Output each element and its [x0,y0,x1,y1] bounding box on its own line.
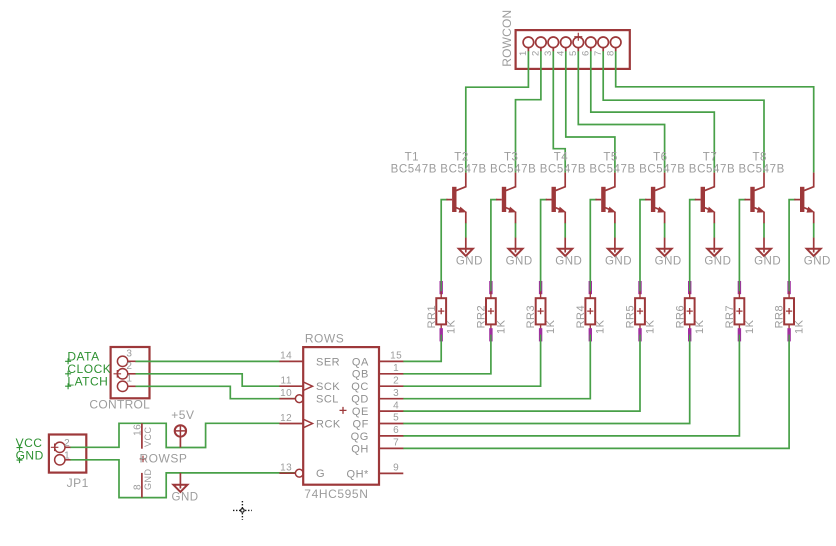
svg-text:LATCH: LATCH [67,374,108,388]
label VCC origin cross [17,445,23,451]
wire RR6 top to T6 base [690,200,696,288]
svg-text:3: 3 [126,349,132,360]
svg-text:QF: QF [353,418,369,430]
svg-text:13: 13 [280,463,292,474]
ROWCON pin 7 circle [598,37,609,48]
svg-text:BC547B: BC547B [589,163,635,175]
ROWCON pin 3 circle [548,37,559,48]
svg-text:GND: GND [804,256,831,268]
IC pin QE stub [379,410,403,412]
svg-text:G: G [316,468,325,480]
IC pin QA stub [379,360,403,362]
wire net QE: IC pin to RR5 bottom [403,334,640,411]
IC pin 14 SER stub [279,360,303,362]
svg-text:ROWCON: ROWCON [500,10,514,67]
wire RR5 top to T5 base [640,200,646,288]
svg-text:QG: QG [351,431,369,443]
CONTROL pin stub [128,360,136,362]
svg-text:QH*: QH* [347,468,370,480]
wire net VCC: JP1 pin 2 via +5V to IC RCK [70,423,280,447]
svg-text:T3: T3 [504,151,518,163]
svg-text:RR1: RR1 [426,305,438,329]
svg-text:1: 1 [393,363,399,374]
svg-text:3: 3 [543,50,554,56]
transistor T8 BC547B [800,187,804,212]
+5V supply symbol [175,425,186,436]
svg-text:RR5: RR5 [625,305,637,329]
ROWCON pin 3 stub [552,48,554,52]
ROWCON origin cross [574,33,582,41]
svg-text:6: 6 [393,425,399,436]
ROWCON pin 5 circle [573,37,584,48]
svg-text:T6: T6 [653,151,667,163]
JP1 pin 2 circle [55,442,65,452]
svg-text:T2: T2 [454,151,468,163]
wire net DATA: CONTROL pin 3 to IC SER [135,360,279,362]
svg-text:BC547B: BC547B [739,163,785,175]
ROWCON pin 4 circle [561,37,572,48]
svg-text:GND: GND [605,256,632,268]
wire ROW3 net: ROWCON pin 3 to T3 collector [553,51,565,173]
svg-text:2: 2 [126,361,132,372]
svg-text:GND: GND [555,256,582,268]
svg-text:QH: QH [351,443,369,455]
ground symbol below T8 [813,238,815,253]
wire ROW8 net: ROWCON pin 8 to T8 collector [616,51,814,173]
svg-text:QA: QA [352,356,369,368]
sheet origin crosshair [233,509,252,511]
svg-text:1K: 1K [644,319,656,334]
svg-text:BC547B: BC547B [689,163,735,175]
svg-text:T7: T7 [703,151,717,163]
svg-text:GND: GND [143,469,153,491]
wire ROW2 net: ROWCON pin 2 to T2 collector [516,51,541,173]
CONTROL origin cross [114,370,122,378]
svg-text:6: 6 [580,50,591,56]
CONTROL pin stub [128,373,136,375]
svg-text:7: 7 [593,50,604,56]
svg-text:2: 2 [393,375,399,386]
CONTROL pin stub [128,385,136,387]
IC pin QF stub [379,423,403,425]
resistor RR6 1K [688,281,691,294]
svg-text:QE: QE [352,406,369,418]
svg-text:8: 8 [605,50,616,56]
ROWSP origin cross [140,456,147,463]
ROWCON pin 1 stub [527,48,529,52]
resistor RR7 1K [738,281,741,294]
IC pin 10 SCL stub [279,398,295,400]
wire net QF: IC pin to RR6 bottom [403,334,690,424]
wire net QA: IC pin to RR1 bottom [403,334,441,361]
svg-text:9: 9 [393,463,399,474]
svg-text:1K: 1K [694,319,706,334]
IC pin 9 QH* stub [379,472,403,474]
wire net LATCH: CONTROL pin 1 to IC SCL [135,386,295,398]
svg-text:4: 4 [393,400,399,411]
transistor T6 BC547B [701,187,705,212]
wire RR7 top to T7 base [739,200,745,288]
IC pin 13 G stub [279,472,295,474]
IC pin 11 SCK stub [279,385,303,387]
svg-text:RCK: RCK [316,418,341,430]
svg-text:1K: 1K [446,319,458,334]
wire T2 emitter to ground symbol [515,223,517,238]
CONTROL pin 2 circle [117,369,127,379]
svg-text:BC547B: BC547B [391,163,437,175]
ROWCON pin 7 stub [602,48,604,52]
svg-text:GND: GND [456,256,483,268]
svg-text:14: 14 [280,351,292,362]
label LATCH origin cross [65,383,71,389]
svg-text:T5: T5 [603,151,617,163]
svg-text:SER: SER [316,356,340,368]
transistor T2 BC547B [502,187,506,212]
svg-text:1K: 1K [744,319,756,334]
JP1 pin 1 stub [65,459,70,461]
svg-text:RR4: RR4 [575,305,587,329]
label CLOCK origin cross [65,371,71,377]
svg-text:GND: GND [655,256,682,268]
IC pin QB stub [379,373,403,375]
CONTROL pin 1 circle [117,381,127,391]
ROWSP VCC pin 16 line [141,423,143,448]
svg-text:1K: 1K [794,319,806,334]
ground symbol below T6 [713,238,715,253]
svg-text:5: 5 [393,413,399,424]
ROWCON pin 2 stub [540,48,542,52]
svg-text:7: 7 [393,438,399,449]
svg-text:12: 12 [280,413,292,424]
connector CONTROL body [111,347,150,398]
wire ROW5 net: ROWCON pin 5 to T5 collector [578,51,664,173]
CONTROL pin 3 circle [117,356,127,366]
svg-text:RR8: RR8 [774,305,786,329]
connector JP1 body [49,435,86,473]
JP1 pin 1 circle [55,455,65,465]
wire ROW6 net: ROWCON pin 6 to T6 collector [591,51,715,173]
svg-text:ROWSP: ROWSP [140,451,188,465]
svg-text:1K: 1K [495,319,507,334]
ROWSP GND pin 8 line [141,473,143,498]
svg-text:BC547B: BC547B [490,163,536,175]
svg-text:QC: QC [351,381,369,393]
ROWCON pin 1 circle [523,37,534,48]
svg-text:1K: 1K [545,319,557,334]
IC pin 12 RCK stub [279,423,303,425]
ground symbol below T1 [465,238,467,253]
svg-text:RR7: RR7 [724,305,736,329]
svg-text:1: 1 [64,451,70,462]
svg-text:RR6: RR6 [674,305,686,329]
IC SCK clock mark [303,419,312,428]
svg-text:T1: T1 [405,151,419,163]
svg-text:GND: GND [754,256,781,268]
wire net QH: IC pin to RR8 bottom [403,334,789,448]
svg-text:T4: T4 [554,151,569,163]
svg-text:2: 2 [64,438,70,449]
label DATA origin cross [65,358,71,364]
svg-text:QD: QD [351,394,369,406]
wire ROW7 net: ROWCON pin 7 to T7 collector [603,51,764,173]
wire net QG: IC pin to RR7 bottom [403,334,739,436]
svg-text:74HC595N: 74HC595N [304,487,368,501]
wire RR2 top to T2 base [491,200,497,288]
wire RR8 top to T8 base [789,200,795,288]
svg-text:ROWS: ROWS [305,331,344,345]
ROWCON pin 8 circle [610,37,621,48]
wire T3 emitter to ground symbol [564,223,566,238]
IC origin cross [340,407,347,414]
svg-text:GND: GND [506,256,533,268]
transistor T7 BC547B [750,187,754,212]
svg-text:SCK: SCK [316,381,340,393]
svg-text:1: 1 [518,50,529,56]
wire RR3 top to T3 base [541,200,547,288]
wire ROW4 net: ROWCON pin 4 to T4 collector [566,51,615,173]
wire T6 emitter to ground symbol [713,223,715,238]
wire net QB: IC pin to RR2 bottom [403,334,491,374]
svg-text:RR3: RR3 [525,305,537,329]
svg-text:SCL: SCL [316,394,339,406]
svg-text:GND: GND [172,491,199,503]
svg-text:+5V: +5V [171,408,194,422]
transistor T1 BC547B [452,187,456,212]
transistor T3 BC547B [552,187,556,212]
wire ROW1 net: ROWCON pin 1 to T1 collector [466,51,529,173]
IC pin QC stub [379,385,403,387]
connector ROWCON body [516,30,630,69]
ROWCON pin 8 stub [615,48,617,52]
resistor RR1 1K [440,281,443,294]
wire T8 emitter to ground symbol [813,223,815,238]
wire T4 emitter to ground symbol [614,223,616,238]
wire net QD: IC pin to RR4 bottom [403,334,590,399]
resistor RR4 1K [589,281,592,294]
JP1 origin cross [51,444,59,452]
wire net CLOCK: CONTROL pin 2 to IC SCK [135,374,279,386]
transistor T4 BC547B [601,187,605,212]
resistor RR5 1K [638,281,641,294]
svg-text:RR2: RR2 [476,305,488,329]
svg-text:3: 3 [393,388,399,399]
wire net GND: JP1 pin 1 to IC G [70,460,295,498]
transistor T5 BC547B [651,187,655,212]
wire T1 emitter to ground symbol [465,223,467,238]
resistor RR2 1K [489,281,492,294]
wire RR4 top to T4 base [590,200,596,288]
IC U1 74HC595N body [303,347,379,485]
IC pin QD stub [379,398,403,400]
wire T7 emitter to ground symbol [763,223,765,238]
svg-text:QB: QB [352,369,369,381]
svg-text:4: 4 [555,50,566,56]
svg-text:1K: 1K [595,319,607,334]
ground symbol below T7 [763,238,765,253]
IC pin 13 inversion bubble [295,469,303,477]
svg-text:15: 15 [390,351,402,362]
IC pin QG stub [379,435,403,437]
svg-text:T8: T8 [753,151,767,163]
IC pin 10 inversion bubble [295,395,303,403]
wire net QC: IC pin to RR3 bottom [403,334,541,386]
svg-text:5: 5 [568,50,579,56]
ROWCON pin 6 circle [586,37,597,48]
svg-text:11: 11 [281,376,292,387]
ground symbol near ROWSP [179,473,181,489]
svg-text:VCC: VCC [143,426,153,447]
svg-text:BC547B: BC547B [440,163,486,175]
ROWCON pin 4 stub [565,48,567,52]
svg-text:CONTROL: CONTROL [89,398,150,412]
svg-text:GND: GND [704,256,731,268]
svg-text:JP1: JP1 [67,476,89,490]
resistor RR3 1K [539,281,542,294]
ground symbol below T3 [564,238,566,253]
svg-text:2: 2 [531,50,542,56]
resistor RR8 1K [787,281,790,294]
JP1 pin 2 stub [65,446,70,448]
ROWCON pin 5 stub [577,48,579,52]
ground symbol below T2 [515,238,517,253]
svg-text:BC547B: BC547B [540,163,586,175]
label GND origin cross [17,457,23,463]
svg-text:1: 1 [126,374,132,385]
IC pin QH stub [379,447,403,449]
wire RR1 top to T1 base [441,200,447,288]
ROWCON pin 6 stub [590,48,592,52]
ground symbol below T4 [614,238,616,253]
svg-text:BC547B: BC547B [639,163,685,175]
ROWCON pin 2 circle [536,37,547,48]
wire T5 emitter to ground symbol [664,223,666,238]
ground symbol below T5 [664,238,666,253]
svg-text:10: 10 [280,388,292,399]
